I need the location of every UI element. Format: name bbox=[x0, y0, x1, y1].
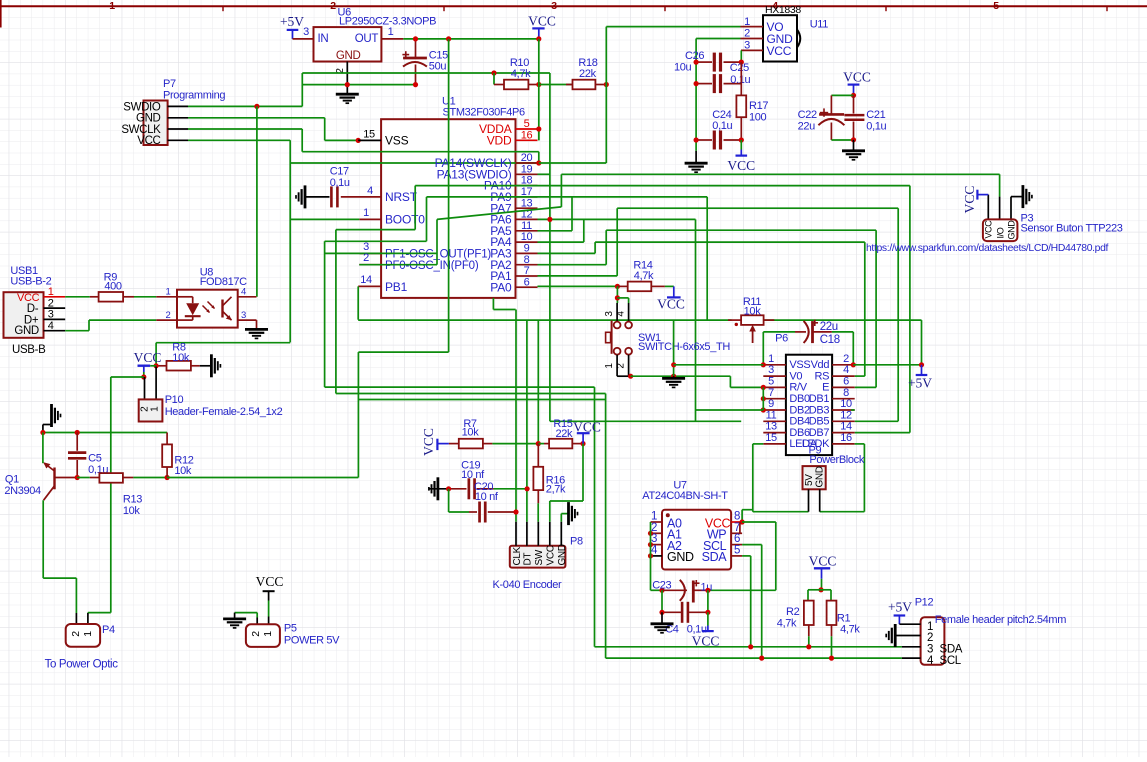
svg-text:4: 4 bbox=[843, 364, 849, 376]
wire SWDIO bbox=[188, 105, 302, 107]
svg-text:R/V: R/V bbox=[789, 382, 807, 394]
svg-text:I/O: I/O bbox=[995, 227, 1005, 238]
wire pin8 right bbox=[742, 521, 776, 523]
U11 pin stubs bbox=[741, 27, 764, 51]
P12 names SDA SCL bbox=[940, 644, 963, 667]
junction P6 pin2 bbox=[851, 362, 856, 367]
wire pin11 elbow up bbox=[571, 197, 573, 231]
wire R2 to bus1 bbox=[808, 625, 810, 636]
svg-text:4,7k: 4,7k bbox=[840, 624, 860, 636]
P9 rotated names bbox=[804, 466, 826, 487]
svg-text:VCC: VCC bbox=[984, 220, 994, 239]
wire LEDA loop bbox=[753, 444, 809, 512]
svg-text:15: 15 bbox=[363, 129, 375, 141]
resistor R17 100 bbox=[736, 62, 746, 140]
svg-text:3: 3 bbox=[241, 310, 246, 321]
svg-text:14: 14 bbox=[360, 274, 372, 286]
svg-text:22u: 22u bbox=[820, 321, 838, 333]
wire PF riser bbox=[436, 219, 438, 264]
wire c20 left bbox=[449, 511, 469, 513]
junction C4 left bbox=[659, 610, 664, 615]
junction vss row bbox=[671, 362, 676, 367]
junction C24 right bbox=[739, 137, 744, 142]
junction VCC top bbox=[536, 36, 541, 41]
P3 pin lines bbox=[988, 195, 1023, 220]
svg-text:11: 11 bbox=[521, 220, 532, 232]
wire SWCLK row2 bbox=[302, 151, 539, 153]
junction R12 bottom bbox=[165, 475, 170, 480]
wire c23 c4 left link bbox=[661, 590, 663, 612]
junction R1R2 top bbox=[818, 587, 823, 592]
svg-text:HX1838: HX1838 bbox=[765, 4, 801, 16]
svg-text:IN: IN bbox=[318, 33, 329, 45]
svg-text:16: 16 bbox=[521, 129, 533, 141]
wire PF0 bbox=[359, 264, 437, 266]
svg-text:14: 14 bbox=[840, 421, 852, 433]
svg-text:Header-Female-2.54_1x2: Header-Female-2.54_1x2 bbox=[165, 406, 283, 418]
svg-text:P6: P6 bbox=[775, 333, 788, 345]
svg-text:P8: P8 bbox=[570, 536, 583, 548]
svg-text:1: 1 bbox=[262, 631, 274, 637]
junction SWDIO bbox=[254, 104, 259, 109]
svg-text:10: 10 bbox=[840, 398, 852, 410]
svg-text:C25: C25 bbox=[730, 62, 749, 74]
svg-text:9: 9 bbox=[524, 243, 530, 255]
wire base to R13 bbox=[77, 477, 90, 479]
svg-text:13: 13 bbox=[765, 421, 777, 433]
svg-text:1: 1 bbox=[150, 406, 161, 412]
voltage regulator U6 LP2950CZ-3.3NOPB bbox=[314, 7, 382, 62]
junction R15 right bbox=[580, 441, 585, 446]
ground C19 bbox=[436, 477, 439, 500]
svg-text:4,7k: 4,7k bbox=[511, 68, 531, 80]
ground C17 bbox=[304, 185, 307, 208]
wire jog row352 bbox=[358, 351, 448, 353]
pin 4 NRST bbox=[341, 185, 418, 204]
junction pin6 bbox=[615, 284, 620, 289]
capacitor C25 0.1u bbox=[696, 74, 741, 93]
junction U7 pin8 bbox=[740, 519, 745, 524]
svg-text:3: 3 bbox=[303, 26, 309, 38]
svg-text:PF1-OSC_OUT(PF1): PF1-OSC_OUT(PF1) bbox=[385, 249, 491, 261]
capacitor C17 0.1u bbox=[305, 186, 337, 207]
svg-text:SWITCH-6x6x5_TH: SWITCH-6x6x5_TH bbox=[638, 341, 730, 353]
wire P7 VCC bbox=[188, 139, 290, 141]
wire vert pa6 gnd bbox=[673, 320, 675, 376]
svg-text:C4: C4 bbox=[665, 624, 679, 636]
wire CLK riser bbox=[515, 310, 517, 513]
junction VDDA bbox=[536, 126, 541, 131]
svg-text:6: 6 bbox=[524, 276, 530, 288]
svg-text:6: 6 bbox=[734, 533, 740, 545]
junction R1 bus bbox=[829, 656, 834, 661]
net flag VCC C22 bbox=[843, 69, 871, 95]
wire sw riser bbox=[616, 286, 618, 303]
ground C21 bbox=[842, 140, 865, 160]
net flag VCC R15 bbox=[573, 419, 601, 443]
wire pin11 row bbox=[538, 230, 573, 232]
P6 pin 5 R/V bbox=[763, 376, 807, 394]
wire to U8 pin4 bbox=[256, 106, 258, 296]
svg-text:1: 1 bbox=[927, 621, 933, 633]
wire long vert x358 bbox=[357, 352, 359, 477]
wire vcc to R8 flag bbox=[156, 342, 290, 344]
svg-text:PA0: PA0 bbox=[490, 280, 512, 294]
wire L1 row to LCD bbox=[325, 386, 595, 388]
svg-text:VCC: VCC bbox=[843, 69, 871, 84]
wire DB5 drop bbox=[897, 208, 899, 421]
svg-text:12: 12 bbox=[840, 409, 852, 421]
P12 pin numbers bbox=[927, 621, 934, 667]
svg-text:10u: 10u bbox=[674, 62, 692, 74]
junction R7 R15 bbox=[536, 441, 541, 446]
wire P10 row bbox=[111, 376, 144, 378]
svg-text:VCC: VCC bbox=[727, 158, 755, 173]
svg-text:GND: GND bbox=[336, 50, 361, 62]
wire L2 drop bbox=[335, 230, 337, 394]
svg-text:DB5: DB5 bbox=[809, 416, 830, 428]
wire pin20 right bbox=[539, 162, 607, 164]
junction q1 c bbox=[40, 430, 45, 435]
svg-text:BOOT0: BOOT0 bbox=[385, 213, 425, 227]
net flag VCC P10 bbox=[134, 350, 162, 377]
wire L1 drop bbox=[324, 241, 326, 387]
connector P9 PowerBlock bbox=[803, 466, 826, 489]
ground P5 bbox=[223, 613, 246, 628]
ground P8 bbox=[567, 502, 570, 525]
svg-text:DB1: DB1 bbox=[809, 393, 830, 405]
junction C25 left bbox=[694, 81, 699, 86]
wire R11 right row to 5V bbox=[764, 319, 922, 321]
junction mid vcc wire bbox=[446, 36, 451, 41]
wire U11 gnd bbox=[696, 38, 740, 40]
wire R16 to SW pin bbox=[537, 503, 539, 522]
svg-text:OUT: OUT bbox=[355, 33, 379, 45]
svg-text:100: 100 bbox=[749, 111, 767, 123]
svg-text:Vdd: Vdd bbox=[811, 359, 830, 371]
svg-text:DB3: DB3 bbox=[809, 404, 830, 416]
wire c22 top bbox=[831, 94, 853, 96]
net flag VCC R14 inverted bbox=[657, 286, 685, 311]
svg-text:3: 3 bbox=[48, 309, 54, 321]
wire gnd row bbox=[302, 84, 416, 86]
junction C15 bottom bbox=[413, 82, 418, 87]
svg-text:VCC: VCC bbox=[421, 428, 436, 456]
wire R10-R18 bbox=[539, 84, 573, 86]
pin 19 PA13(SWDIO) bbox=[437, 163, 538, 181]
svg-text:P10: P10 bbox=[165, 394, 184, 406]
svg-text:4: 4 bbox=[616, 311, 627, 317]
svg-text:VCC: VCC bbox=[528, 14, 556, 29]
junction C26 left bbox=[694, 60, 699, 65]
svg-text:R13: R13 bbox=[123, 494, 142, 506]
junction C19 bbox=[446, 486, 451, 491]
wire vcc drop to R8 bbox=[155, 343, 157, 366]
svg-text:VCC: VCC bbox=[17, 292, 40, 304]
svg-text:Sensor Buton TTP223: Sensor Buton TTP223 bbox=[1021, 223, 1123, 235]
svg-text:+5V: +5V bbox=[908, 376, 932, 391]
wire bus2 SCL bbox=[606, 657, 902, 659]
svg-text:3: 3 bbox=[927, 644, 933, 656]
wire gnd jog lcd bbox=[729, 376, 731, 387]
connector P10 header female 1x2 bbox=[139, 399, 163, 421]
svg-text:7: 7 bbox=[524, 265, 530, 277]
svg-text:C23: C23 bbox=[652, 580, 671, 592]
P6 pin 16 LEDK bbox=[802, 432, 855, 450]
svg-text:+5V: +5V bbox=[280, 14, 304, 29]
P6 pin 4 RS bbox=[815, 364, 855, 382]
pin 13 PA7 bbox=[490, 197, 537, 215]
svg-text:SCL: SCL bbox=[940, 655, 962, 667]
net flag +5V bbox=[280, 14, 304, 39]
wire SWDIO riser bbox=[301, 73, 303, 106]
svg-text:DB4: DB4 bbox=[789, 416, 810, 428]
svg-text:10 nf: 10 nf bbox=[461, 469, 485, 481]
svg-text:0,1u: 0,1u bbox=[866, 121, 886, 133]
resistor R11 10k potentiometer bbox=[728, 315, 774, 343]
pin end dot R11 bbox=[735, 323, 738, 326]
P6 pin 12 DB5 bbox=[809, 409, 855, 427]
wire U8 pin3 gnd bbox=[245, 320, 268, 338]
pin 10 PA4 bbox=[490, 231, 537, 249]
wire DT riser bbox=[526, 320, 528, 489]
wire bus1 SDA bbox=[595, 646, 902, 648]
wire R15 to P8 vcc bbox=[550, 444, 583, 501]
wire DB2 row bbox=[696, 409, 764, 411]
junction C23 right bbox=[705, 588, 710, 593]
svg-text:P4: P4 bbox=[102, 624, 115, 636]
resistor R10 4.7k bbox=[494, 80, 539, 90]
USB pin stubs bbox=[44, 297, 66, 331]
P7 pin stubs bbox=[168, 106, 188, 140]
pin 8 PA2 bbox=[490, 254, 537, 272]
ground U7 bbox=[651, 612, 674, 633]
svg-text:4: 4 bbox=[241, 287, 246, 298]
capacitor C22 22u bbox=[818, 95, 844, 140]
transistor Q1 2N3904 bbox=[43, 433, 77, 579]
junction R8 left bbox=[154, 363, 159, 368]
junction R2 bus bbox=[806, 644, 811, 649]
capacitor C19 10nf bbox=[449, 478, 494, 499]
svg-text:3: 3 bbox=[768, 364, 774, 376]
net flag +5V lcd bbox=[908, 365, 932, 391]
svg-text:4: 4 bbox=[48, 320, 54, 332]
wire CLK jog bbox=[493, 309, 515, 311]
wire SWCLK to pin20 bbox=[538, 152, 540, 163]
svg-text:13: 13 bbox=[521, 197, 533, 209]
junction CLK bbox=[513, 509, 518, 514]
svg-text:2: 2 bbox=[330, 0, 336, 12]
svg-text:2: 2 bbox=[250, 631, 262, 637]
connector P8 encoder bbox=[510, 546, 566, 568]
svg-text:22k: 22k bbox=[555, 428, 573, 440]
pin 16 VDD bbox=[487, 129, 538, 147]
capacitor C21 0.1u bbox=[844, 95, 864, 139]
svg-text:20: 20 bbox=[521, 152, 533, 164]
wire pin8 elbow up bbox=[605, 230, 607, 265]
wire WP tie bbox=[739, 522, 741, 533]
optocoupler U8 FOD817C bbox=[156, 290, 256, 328]
wire p5 gnd bbox=[235, 613, 258, 625]
pin 18 PA10 bbox=[484, 175, 538, 193]
wire E drop bbox=[875, 230, 877, 387]
svg-text:PF0-OSC_IN(PF0): PF0-OSC_IN(PF0) bbox=[385, 260, 479, 272]
net flag VCC R7 rotated bbox=[421, 428, 449, 456]
svg-text:VDD: VDD bbox=[487, 133, 512, 147]
svg-text:VCC: VCC bbox=[573, 419, 601, 434]
resistor R12 10k bbox=[162, 433, 172, 478]
capacitor C4 0.1u bbox=[662, 602, 708, 623]
svg-text:DB7: DB7 bbox=[809, 427, 830, 439]
wire PA2 top row bbox=[606, 229, 876, 231]
connector USB1 USB-B-2 bbox=[4, 292, 44, 338]
svg-text:DB0: DB0 bbox=[789, 393, 810, 405]
U11 pin names bbox=[767, 20, 794, 58]
wire sw pin4 jog bbox=[617, 297, 628, 299]
connector P6 LCD HD44780 bbox=[786, 355, 832, 455]
resistor R14 4.7k bbox=[617, 282, 665, 292]
wire R14 to flag bbox=[665, 285, 674, 287]
wire DB7 row bbox=[855, 432, 910, 434]
wire split R2 bbox=[808, 590, 821, 601]
svg-text:8: 8 bbox=[524, 254, 530, 266]
wire L1 drop to bus1 bbox=[594, 387, 596, 647]
wire c23 c4 right link bbox=[707, 590, 709, 612]
wire rail to C23 bbox=[651, 589, 663, 591]
resistor R1 4.7k bbox=[827, 601, 837, 625]
svg-text:1: 1 bbox=[109, 0, 115, 12]
P6 pin 6 E bbox=[822, 376, 855, 394]
wire pin19 to riser bbox=[538, 173, 550, 175]
svg-text:GND: GND bbox=[667, 550, 694, 564]
pin 14 PB1 bbox=[358, 274, 407, 294]
junction q1 base bbox=[75, 475, 80, 480]
junction c5 top bbox=[75, 430, 80, 435]
resistor R9 400 bbox=[90, 292, 134, 302]
pin 20 PA14(SWCLK) bbox=[435, 152, 538, 170]
svg-text:16: 16 bbox=[840, 432, 852, 444]
wire VCC vertical bbox=[538, 39, 540, 140]
wire P7 GND drop bbox=[324, 118, 326, 141]
resistor R15 22k bbox=[544, 439, 583, 449]
wire E row bbox=[855, 386, 876, 388]
junction C21 bottom bbox=[851, 137, 856, 142]
capacitor C20 10nf bbox=[469, 502, 516, 523]
wire LEDK loop bbox=[820, 444, 865, 512]
pin 15 VSS bbox=[358, 129, 408, 148]
svg-text:PowerBlock: PowerBlock bbox=[809, 454, 864, 466]
svg-text:10 nf: 10 nf bbox=[475, 491, 499, 503]
ground P12 bbox=[894, 624, 897, 647]
wire SDA route bbox=[742, 556, 751, 647]
net flag VCC R1R2 bbox=[809, 554, 837, 590]
junction gnd x673 row376 bbox=[671, 374, 676, 379]
junction P6 pin1 bbox=[761, 362, 766, 367]
capacitor C24 0.1u bbox=[696, 131, 741, 150]
junction C24 left bbox=[694, 137, 699, 142]
wire P3 IO drop bbox=[999, 174, 1001, 196]
plus C18 bbox=[812, 322, 818, 324]
svg-text:GND: GND bbox=[136, 113, 161, 125]
wire PA3 top row bbox=[595, 241, 865, 243]
junction sw top bbox=[615, 295, 620, 300]
wire SWCLK drop bbox=[301, 129, 303, 152]
wire q1 top row bbox=[43, 432, 167, 434]
svg-text:+5V: +5V bbox=[888, 600, 912, 615]
P9 pins bbox=[809, 489, 820, 511]
plus C22 bbox=[820, 112, 828, 114]
svg-text:SWCLK: SWCLK bbox=[121, 124, 161, 136]
capacitor C23 1u bbox=[662, 580, 708, 603]
junction C15 top bbox=[413, 36, 418, 41]
wire to R15 bbox=[538, 443, 544, 445]
wire pin8 row bbox=[538, 264, 607, 266]
SW1 rotated pin numbers bbox=[604, 311, 627, 369]
junction +5V bbox=[919, 362, 924, 367]
U7 pin 4 GND bbox=[651, 545, 695, 565]
svg-text:2: 2 bbox=[843, 353, 849, 365]
svg-text:K-040 Encoder: K-040 Encoder bbox=[493, 579, 563, 591]
svg-text:C21: C21 bbox=[866, 109, 885, 121]
wire PA10 drop DB7 bbox=[909, 186, 911, 433]
svg-text:P5: P5 bbox=[284, 623, 297, 635]
svg-text:4: 4 bbox=[927, 655, 934, 667]
wire gnd to pin5 bbox=[730, 386, 763, 388]
svg-text:2: 2 bbox=[363, 252, 369, 264]
wire usb vcc bbox=[65, 296, 90, 298]
wire PA10 long row bbox=[415, 185, 910, 187]
junction pin12 bbox=[547, 217, 552, 222]
wire U11 gnd drop bbox=[695, 39, 697, 151]
svg-text:C22: C22 bbox=[798, 109, 817, 121]
ground R8 bbox=[210, 354, 213, 377]
pin 2 PF0 bbox=[359, 252, 479, 272]
svg-text:GND: GND bbox=[1007, 220, 1017, 240]
C19 gnd stem bbox=[429, 488, 449, 490]
U7 pin 1 A0 bbox=[651, 511, 682, 531]
svg-text:VCC: VCC bbox=[962, 186, 977, 214]
svg-text:SDA: SDA bbox=[702, 550, 728, 564]
junction U6 gnd bbox=[345, 82, 350, 87]
svg-text:P12: P12 bbox=[915, 597, 934, 609]
P8 rotated pin names bbox=[512, 544, 568, 565]
svg-text:NRST: NRST bbox=[385, 190, 418, 204]
svg-text:GND: GND bbox=[815, 466, 826, 487]
ground Q1 bbox=[43, 404, 61, 433]
wire long riser x550 bbox=[549, 73, 551, 421]
switch SW1 tactile bbox=[606, 298, 632, 376]
junction C21 top bbox=[851, 93, 856, 98]
wire diag riser bbox=[560, 174, 562, 207]
svg-text:VSS: VSS bbox=[385, 133, 409, 147]
U6 pin1 stub bbox=[381, 38, 403, 40]
P10 rotated numbers bbox=[140, 406, 161, 412]
wire R7 right bbox=[492, 443, 538, 445]
svg-text:11: 11 bbox=[766, 409, 777, 421]
U7 pin 8 VCC bbox=[705, 511, 742, 531]
svg-text:1: 1 bbox=[651, 511, 657, 523]
junction SDA bus bbox=[748, 644, 753, 649]
connector P5 bbox=[246, 624, 280, 647]
P3 rotated pin names bbox=[984, 220, 1017, 240]
svg-text:5V: 5V bbox=[804, 474, 815, 486]
svg-text:GND: GND bbox=[14, 325, 39, 337]
wire P7 GND bbox=[188, 117, 325, 119]
svg-text:VCC: VCC bbox=[692, 634, 720, 649]
wire gnd rail lcd bbox=[762, 387, 764, 410]
pin 7 PA1 bbox=[490, 265, 537, 283]
wire pin13 diagonal bbox=[437, 207, 561, 220]
